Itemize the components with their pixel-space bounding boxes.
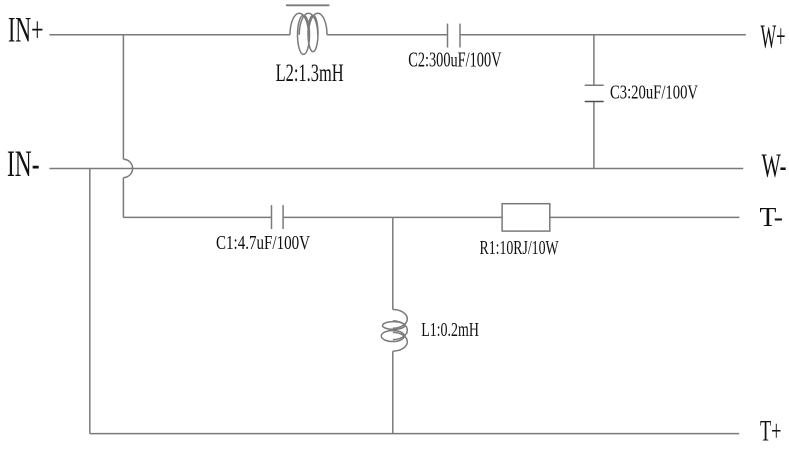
inductor L1 coil bbox=[393, 310, 408, 352]
wire IN- to W- bbox=[49, 168, 743, 170]
wire vertical from hop down to T- line bbox=[122, 178, 124, 218]
svg-text:T-: T- bbox=[760, 201, 784, 232]
wire top middle (L2 to C2) bbox=[327, 34, 448, 36]
wire top right (C2 to W+) bbox=[460, 34, 746, 36]
svg-text:IN-: IN- bbox=[7, 144, 40, 185]
svg-text:C3:20uF/100V: C3:20uF/100V bbox=[610, 82, 698, 104]
wire vertical C3 lower (C3 to W- wire) bbox=[593, 102, 595, 169]
capacitor C2 bbox=[447, 24, 449, 48]
wire hop over IN- line bbox=[123, 159, 132, 177]
svg-text:W-: W- bbox=[762, 147, 787, 184]
svg-text:C2:300uF/100V: C2:300uF/100V bbox=[408, 48, 501, 72]
wire vertical left (IN- node down to bottom) bbox=[89, 169, 91, 434]
wire vertical L1 lower (L1 to bottom wire) bbox=[392, 351, 394, 433]
inductor L2 coil bbox=[290, 13, 327, 35]
wire vertical from IN+ node down to hop bbox=[122, 35, 124, 160]
svg-text:C1:4.7uF/100V: C1:4.7uF/100V bbox=[216, 232, 310, 254]
wire bottom (to T+) bbox=[90, 433, 739, 435]
wire T- middle (C1 to R1) bbox=[283, 216, 502, 218]
svg-text:W+: W+ bbox=[761, 18, 786, 55]
svg-text:L1:0.2mH: L1:0.2mH bbox=[421, 319, 479, 341]
wire vertical L1 upper (T- wire to L1) bbox=[392, 217, 394, 309]
resistor R1 bbox=[502, 204, 550, 231]
wire vertical C3 upper (top wire to C3) bbox=[593, 35, 595, 85]
svg-text:R1:10RJ/10W: R1:10RJ/10W bbox=[480, 237, 559, 259]
svg-text:L2:1.3mH: L2:1.3mH bbox=[276, 60, 344, 87]
wire top left (IN+ to L2) bbox=[49, 34, 290, 36]
wire T- left (corner to C1) bbox=[123, 216, 271, 218]
inductor L2 core bar bbox=[286, 4, 330, 6]
capacitor C1 bbox=[271, 205, 273, 229]
wire T- right (R1 to T-) bbox=[550, 216, 740, 218]
svg-text:IN+: IN+ bbox=[8, 9, 44, 49]
svg-text:T+: T+ bbox=[760, 414, 782, 447]
capacitor C3 bbox=[585, 84, 604, 86]
